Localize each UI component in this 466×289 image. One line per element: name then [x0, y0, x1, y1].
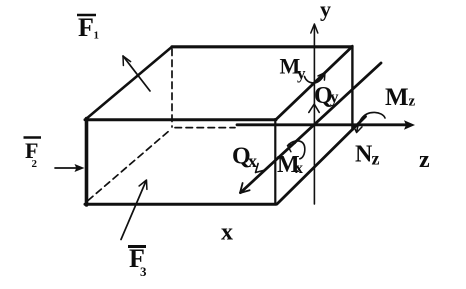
- svg-text:z: z: [372, 149, 380, 169]
- svg-text:x: x: [221, 220, 233, 246]
- svg-text:x: x: [295, 160, 303, 177]
- svg-text:y: y: [320, 0, 331, 22]
- svg-text:2: 2: [32, 158, 38, 170]
- svg-text:1: 1: [94, 30, 100, 42]
- svg-text:z: z: [419, 147, 430, 173]
- svg-text:y: y: [330, 88, 339, 107]
- svg-text:x: x: [248, 151, 257, 171]
- svg-text:z: z: [409, 94, 416, 110]
- svg-text:y: y: [297, 64, 306, 83]
- svg-text:F: F: [78, 13, 94, 42]
- svg-text:M: M: [385, 84, 409, 111]
- svg-text:N: N: [355, 142, 373, 168]
- svg-text:3: 3: [140, 264, 147, 279]
